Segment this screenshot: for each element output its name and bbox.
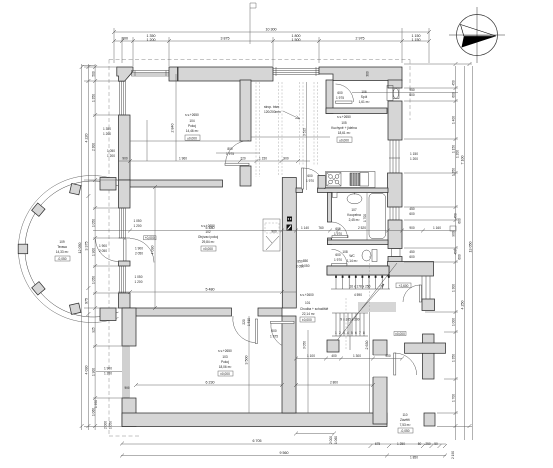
svg-text:1 050: 1 050 [107,149,115,153]
svg-text:1 200: 1 200 [410,157,418,161]
room103 east wall [282,316,296,413]
svg-text:600: 600 [409,212,415,216]
svg-text:1 970: 1 970 [306,179,314,183]
corridor east wall lower [373,340,387,424]
entrance porch east pier vertical [423,334,435,379]
door label room103 [270,329,278,339]
svg-text:950: 950 [409,88,415,92]
svg-text:6: 6 [355,331,357,335]
landing bay top band [388,262,434,277]
stairs mid landing [358,302,396,312]
svg-text:Spíž: Spíž [361,95,368,99]
svg-text:18,06 m²: 18,06 m² [219,365,232,369]
bathroom dim 1700 [366,193,368,241]
svg-text:1 350: 1 350 [103,127,111,131]
interior vertical dim room101 [147,74,176,161]
room label 109 terasa [55,240,70,261]
svg-text:1 350: 1 350 [452,354,456,362]
door label D6 [306,174,314,183]
bottom right small dims [120,442,447,460]
svg-text:1 850: 1 850 [410,456,418,460]
svg-text:22,14 m²: 22,14 m² [302,312,315,316]
top wall mid segment [178,67,273,81]
svg-text:±0,000: ±0,000 [220,372,230,376]
window label left living lower [96,275,143,390]
landing bay door arc [403,285,420,302]
svg-text:±0,000: ±0,000 [395,332,405,336]
svg-text:1 900: 1 900 [104,367,112,371]
svg-text:103: 103 [222,355,228,359]
svg-text:1 250: 1 250 [397,442,405,446]
interior dim line living y292 [118,288,296,295]
top-right wall block above pantry [319,67,402,81]
svg-text:-0,050: -0,050 [400,429,409,433]
entrance door arc [395,353,417,375]
door D5 arc [271,324,283,346]
room label 102 living [198,224,218,251]
svg-text:s.v.+2600: s.v.+2600 [300,293,314,297]
door D4 leaf [255,319,257,344]
svg-text:1,14 m²: 1,14 m² [347,259,358,263]
svg-text:1 200: 1 200 [103,132,111,136]
svg-text:450: 450 [409,207,415,211]
svg-text:110: 110 [402,413,407,417]
window W2 top (corridor window) [273,67,319,76]
door label D7 [334,227,342,236]
door D1 dim line [216,152,260,154]
svg-text:600: 600 [337,91,343,95]
svg-text:4 030: 4 030 [85,366,89,375]
svg-text:18,61 m²: 18,61 m² [338,131,351,135]
svg-text:2 630: 2 630 [365,341,369,350]
top extension lines [114,28,429,66]
svg-text:600: 600 [452,92,456,98]
window W7 left (corner window vertical part) [119,81,128,115]
svg-text:2 000: 2 000 [329,436,333,444]
svg-text:5 480: 5 480 [206,288,215,292]
top dimension chain detailed [114,34,429,42]
svg-text:16 x 178 x 250: 16 x 178 x 250 [350,285,371,289]
svg-text:1 700: 1 700 [452,394,456,402]
room label 108 wc [342,250,357,263]
svg-text:1 200: 1 200 [107,154,115,158]
interior guide line corridor y137 [251,136,330,138]
bathroom west wall [328,193,332,223]
svg-text:4 030: 4 030 [151,246,155,255]
svg-text:50: 50 [418,442,422,446]
svg-text:3 500: 3 500 [245,356,249,365]
door D5 leaf [271,321,295,323]
svg-text:2 300: 2 300 [91,143,95,151]
interior dim line living y230 across [93,226,455,233]
svg-text:1 000: 1 000 [452,318,456,326]
landing level box [396,283,411,288]
svg-text:600: 600 [458,254,462,260]
svg-text:8: 8 [363,331,365,335]
svg-text:Terasa: Terasa [57,245,67,249]
top chain tick marks [112,30,431,43]
svg-text:975: 975 [85,298,89,304]
svg-text:600: 600 [409,93,415,97]
interior dim line corridor y358.5 [294,354,404,361]
svg-text:±0,000: ±0,000 [302,318,312,322]
dashed beams strop tram [256,82,318,177]
svg-text:600: 600 [307,174,313,178]
svg-text:1 970: 1 970 [334,232,342,236]
svg-text:9 560: 9 560 [280,451,289,455]
svg-text:1 060: 1 060 [91,408,95,416]
svg-text:Chodba + schodiště: Chodba + schodiště [300,307,328,311]
window label right kitchen [410,152,418,161]
svg-text:1 900: 1 900 [135,247,143,251]
svg-text:900: 900 [385,354,391,358]
svg-text:600: 600 [335,253,341,257]
svg-text:7,53 m²: 7,53 m² [400,423,411,427]
svg-text:1 900: 1 900 [99,244,107,248]
svg-text:1 810: 1 810 [247,318,251,326]
window W6 right (wc window) [392,249,401,257]
room label 103 pokoj [218,349,233,376]
landing bay east window [422,276,430,299]
bottom dimension chains [121,444,446,456]
room label 107 koupelna [347,208,361,222]
svg-text:±0,000: ±0,000 [187,136,197,140]
bottom rotated dims [94,400,455,459]
svg-text:600: 600 [458,218,462,224]
stairs direction arrow [350,284,384,350]
corridor centerline [306,82,308,190]
pantry bottom wall [326,108,387,114]
svg-text:1 350: 1 350 [452,168,456,176]
svg-text:450: 450 [452,80,456,86]
svg-text:Pokoj: Pokoj [221,360,229,364]
left extension lines [84,67,124,427]
svg-text:29,84 m²: 29,84 m² [202,240,215,244]
svg-text:s.v.+2650: s.v.+2650 [218,349,232,353]
svg-text:760: 760 [318,226,324,230]
window W1 top (corner window horizontal part) [132,71,170,77]
svg-text:1 970: 1 970 [334,258,342,262]
svg-text:250: 250 [425,442,431,446]
kitchen/bath partition wall [296,188,303,193]
svg-text:1 050: 1 050 [109,421,113,429]
window label left room101 [103,127,111,136]
svg-text:900: 900 [122,157,128,161]
landing bay pillar [422,299,435,311]
room 103 west wall [122,308,136,346]
svg-text:1 050: 1 050 [91,219,95,227]
window label right wc [409,250,415,259]
wc bottom wall [327,266,389,275]
svg-text:850: 850 [303,259,309,263]
svg-text:400: 400 [331,354,337,358]
svg-text:2 190: 2 190 [451,451,455,459]
svg-text:900: 900 [124,386,130,390]
window W5 right (bathroom window) [390,207,399,220]
svg-text:1 050: 1 050 [91,276,95,284]
living room west wall mid [119,261,131,266]
svg-text:1 200: 1 200 [147,38,156,42]
svg-text:2 000: 2 000 [104,421,108,429]
svg-text:2 800: 2 800 [330,381,338,385]
room label 101 chodba [300,293,328,322]
svg-text:108: 108 [342,250,348,254]
svg-text:±0,000: ±0,000 [339,138,349,142]
svg-text:900: 900 [452,231,456,237]
terrace inner arc [25,181,119,317]
window label left living upper [107,149,142,228]
svg-text:500: 500 [91,71,95,77]
svg-text:450: 450 [454,249,458,255]
stairs lower flight treads [332,313,368,336]
svg-text:106: 106 [361,90,367,94]
symbol switch on wall [287,225,293,231]
window label right bath [409,207,415,216]
door D1 room101 arc [226,140,250,163]
interior vertical dim living x155 [151,185,158,310]
svg-text:105: 105 [341,121,347,125]
door label D4 [242,318,251,326]
room 103 west wall lower [122,398,136,427]
svg-text:600: 600 [271,329,277,333]
svg-text:1: 1 [335,331,337,335]
svg-text:7: 7 [359,331,361,335]
svg-text:4 590: 4 590 [354,293,362,297]
entrance door opening [373,355,388,377]
pantry left wall [326,80,333,114]
svg-text:900: 900 [271,230,277,234]
pantry door arc [336,84,354,102]
door D6 kitchen-corridor arc [304,168,325,189]
right dimension chains [456,66,473,440]
window W8 left living (upper) [119,208,128,238]
entrance door leaf [394,353,396,375]
top wall west segment with corner block [117,67,133,81]
svg-text:900: 900 [409,226,415,230]
svg-text:1 200: 1 200 [135,280,143,284]
guide line pantry window [352,92,458,94]
bath/wc partition [328,240,389,245]
svg-text:14,33 m²: 14,33 m² [56,250,69,254]
svg-text:3 375: 3 375 [85,242,89,251]
door D4 arc [233,316,255,343]
right chain small box [450,226,456,231]
svg-text:1 050: 1 050 [134,219,142,223]
svg-text:600: 600 [335,227,341,231]
svg-text:1 200: 1 200 [104,372,112,376]
interior vertical dim stairs x369 [365,312,370,413]
stairs upper flight treads [331,275,390,289]
living room west wall lower [119,293,131,308]
svg-text:2 050: 2 050 [135,252,143,256]
svg-text:2 050: 2 050 [296,265,304,269]
stairs diagonal cut line [332,263,397,347]
svg-text:4 220: 4 220 [85,134,89,143]
stair pillar bottom [327,340,339,352]
svg-text:450: 450 [454,213,458,219]
svg-text:800: 800 [227,147,233,151]
bathroom washbasin [347,194,362,204]
stairs wall below wc [327,266,389,275]
window W3 right (pantry window) [387,86,399,101]
svg-text:900: 900 [283,157,289,161]
bathroom bathtub [369,194,386,239]
svg-text:1 100: 1 100 [307,354,315,358]
wc toilet [362,250,377,262]
window W4 right (kitchen window) [389,140,400,173]
interior dim line room101 [118,157,310,164]
door label D1 [226,147,234,156]
svg-text:1 060: 1 060 [334,436,338,444]
door label pantry [336,91,344,100]
corridor exit dim line [294,432,336,436]
svg-text:Pokoj: Pokoj [188,124,196,128]
svg-text:2 840: 2 840 [171,124,175,133]
landing bay door leaf [419,285,421,302]
door label terrace [99,244,107,253]
svg-text:12 050: 12 050 [78,243,82,254]
room label 110 zadveri [398,413,413,433]
entrance porch east pier flange [405,343,446,353]
partition wall room101/living [130,180,223,187]
symbol outlet on wall [287,217,292,222]
svg-text:Závětří: Závětří [400,418,410,422]
svg-text:13 050: 13 050 [468,242,472,253]
door D8 wc arc [332,249,348,264]
left dimension chains [82,64,95,430]
svg-text:Kuchyně + jídelna: Kuchyně + jídelna [331,126,357,130]
svg-text:1 950: 1 950 [94,400,98,408]
svg-text:300: 300 [366,71,370,77]
svg-text:4 250: 4 250 [460,301,464,310]
right wall below wc window [388,257,402,263]
svg-text:1 900: 1 900 [91,248,95,256]
svg-text:50: 50 [434,442,438,446]
bath west wall block below door [328,238,332,245]
svg-text:1 500: 1 500 [292,38,301,42]
stairs tread numbers [335,331,365,335]
right chain ticks [454,62,472,428]
svg-text:101: 101 [305,301,311,305]
svg-text:1 350: 1 350 [91,94,95,102]
small fixture below counter [333,193,338,198]
svg-text:6 705: 6 705 [253,439,262,443]
pillar P1 top wall [169,67,178,81]
door D8 wc leaf [332,264,347,266]
right wall segment bathroom to wc [388,220,402,249]
svg-text:5: 5 [351,331,353,335]
svg-text:104: 104 [189,119,195,123]
stairs tread nosing ticks [335,276,390,278]
svg-text:600: 600 [409,255,415,259]
svg-text:1 150: 1 150 [410,152,418,156]
svg-text:3 875: 3 875 [221,37,230,41]
top dimension chain overall [114,28,429,33]
svg-text:1 975: 1 975 [336,96,344,100]
stairs dim labels [296,260,304,269]
svg-text:Koupelna: Koupelna [347,213,361,217]
annotation strop tram [264,105,300,119]
terrace corner pillar bottom [100,308,116,321]
terrace outer arc [18,175,118,322]
room label 106 pantry [359,90,370,104]
bottom wall [122,413,387,427]
entrance door jambs [373,355,388,377]
svg-text:1 050: 1 050 [135,275,143,279]
pantry door leaf [336,101,353,103]
wall living/room103 [130,308,232,316]
room label 104 Pokoj [185,113,200,140]
terrace corner pillar top [100,178,116,191]
svg-text:WC: WC [349,254,355,258]
svg-text:2 520: 2 520 [358,226,366,230]
svg-text:2: 2 [339,331,341,335]
living room west wall upper [119,180,131,208]
svg-text:±0,000: ±0,000 [203,247,213,251]
interior vertical dim corridor x308 [303,330,309,413]
svg-text:1 160: 1 160 [433,226,441,230]
svg-text:675: 675 [375,442,381,446]
svg-text:strop. trám: strop. trám [264,105,280,109]
svg-text:120/200mm: 120/200mm [264,110,281,114]
right wall segment kitchen [388,101,402,140]
svg-text:1 150: 1 150 [412,38,421,42]
door D6 kitchen-corridor leaf [302,168,304,189]
svg-text:1 975: 1 975 [226,152,234,156]
left wall of room 101 (top-left) [119,115,131,180]
right extension lines [404,64,472,427]
entrance level box [394,332,406,336]
svg-text:1 700: 1 700 [363,214,367,222]
eaves dashed outline [109,60,410,437]
svg-text:3 050: 3 050 [303,341,307,349]
door label D8 [334,253,342,262]
terrace door gap D3 arcs [130,239,154,263]
svg-text:4: 4 [347,331,349,335]
svg-text:s.v.+2650: s.v.+2650 [337,115,351,119]
svg-text:-0,050: -0,050 [57,257,66,261]
top center mark [250,3,256,44]
svg-text:1,61 m²: 1,61 m² [359,100,370,104]
right wall segment with chimney [388,173,403,207]
entrance pillar [424,413,435,426]
svg-text:3 525: 3 525 [303,128,307,136]
svg-text:1 300: 1 300 [353,354,361,358]
terrace posts [18,183,81,314]
svg-text:6 230: 6 230 [206,381,215,385]
svg-text:1 300: 1 300 [452,284,456,292]
corridor west wall (living/corridor) [282,178,296,309]
svg-text:1 200: 1 200 [456,150,460,158]
north arrow [449,7,505,63]
svg-text:1 150: 1 150 [259,157,267,161]
window W10 room103 [122,346,131,398]
svg-text:925: 925 [91,327,95,333]
svg-text:3: 3 [343,331,345,335]
svg-text:1 960: 1 960 [179,157,187,161]
svg-text:Obývací pokoj: Obývací pokoj [198,235,218,239]
svg-text:1 900: 1 900 [91,368,95,376]
svg-text:+2,600: +2,600 [399,284,409,288]
partition wall room101/corridor [240,80,251,141]
svg-text:107: 107 [351,208,357,212]
svg-text:1 140: 1 140 [301,226,309,230]
svg-text:2 975: 2 975 [356,37,365,41]
right wall upper (pantry to kitchen) [388,80,402,88]
door dim corridor [302,259,310,268]
svg-text:9 x 165 x 290: 9 x 165 x 290 [340,318,359,322]
svg-text:109: 109 [59,240,65,244]
